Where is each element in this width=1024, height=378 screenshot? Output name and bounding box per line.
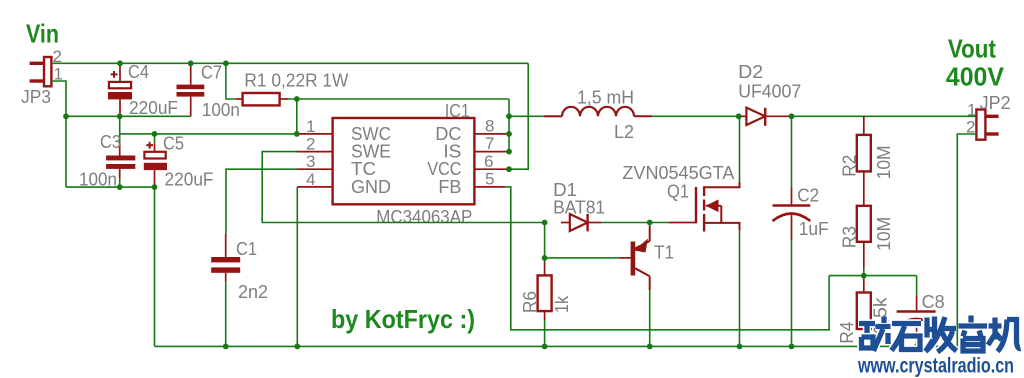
- svg-text:JP2: JP2: [980, 93, 1011, 113]
- resistor R4: [857, 276, 871, 347]
- junction dot top rail C4: [117, 60, 123, 66]
- diode D2: [739, 108, 792, 126]
- value 100n of C7: [202, 100, 240, 120]
- junction dot pin7: [506, 149, 512, 155]
- junction dot divider node: [861, 273, 867, 279]
- wire T1 collector to ground rail: [649, 290, 651, 346]
- svg-text:R6: R6: [520, 291, 540, 313]
- pin name VCC: [427, 159, 461, 179]
- svg-text:IC1: IC1: [445, 101, 470, 121]
- watermark chinese characters: [859, 316, 1021, 353]
- junction dot R1 to pin1: [294, 96, 300, 102]
- pin number 2 of JP3: [53, 47, 62, 66]
- connector JP3: [30, 57, 52, 86]
- pin number 2 of JP2: [966, 118, 975, 137]
- pin name FB: [438, 177, 461, 197]
- junction dot ground C8: [914, 344, 920, 350]
- pin number 1: [306, 117, 315, 136]
- junction dot pin6: [506, 166, 512, 172]
- pin name SWC: [351, 124, 391, 144]
- junction dot ground T1: [647, 344, 653, 350]
- svg-text:C8: C8: [922, 292, 945, 312]
- junction dot pin8: [506, 131, 512, 137]
- svg-text:Vout: Vout: [948, 34, 996, 64]
- label C1: [236, 239, 257, 259]
- svg-text:BAT81: BAT81: [553, 198, 605, 218]
- capacitor C8: [897, 296, 936, 346]
- pin 8 lead DC: [474, 133, 509, 135]
- label C4: [128, 62, 149, 82]
- junction dot C3 bottom rail: [117, 184, 123, 190]
- resistor R6: [538, 262, 552, 320]
- label L2: [614, 122, 634, 142]
- svg-text:1uF: 1uF: [799, 219, 829, 239]
- svg-text:www.crystalradio.cn: www.crystalradio.cn: [857, 354, 1014, 378]
- label T1: [654, 243, 674, 263]
- svg-text:Q1: Q1: [667, 182, 689, 202]
- junction dot base node: [542, 255, 548, 261]
- junction dot D2 anode node: [736, 113, 742, 119]
- wire R6 bottom to ground: [544, 320, 546, 346]
- svg-text:10M: 10M: [874, 217, 894, 251]
- junction dot ground Q1: [737, 344, 743, 350]
- wire SWC rail to pin 1: [120, 133, 297, 135]
- capacitor C7: [177, 63, 205, 116]
- wire D2 to JP2 pin 1 (Vout rail): [792, 115, 977, 117]
- resistor R2: [857, 116, 871, 206]
- red gate lead of Q1: [669, 222, 696, 224]
- value 220uF of C4: [129, 98, 178, 118]
- junction dot ground R4: [861, 344, 867, 350]
- wire C1 bottom to ground rail: [225, 281, 227, 346]
- connector JP2: [976, 110, 998, 140]
- svg-text:100n: 100n: [202, 100, 240, 120]
- value 10M rotated: [874, 145, 894, 179]
- wire pin3 TC routing down to C1: [226, 169, 297, 234]
- pin number 2: [306, 135, 315, 154]
- svg-text:220uF: 220uF: [165, 170, 214, 190]
- wire R6 branch vertical: [544, 223, 546, 263]
- wire C2 bottom to ground rail: [791, 240, 793, 346]
- resistor R3: [857, 206, 871, 268]
- label C7: [201, 63, 222, 83]
- net label 400V: [946, 62, 1005, 92]
- label 1,5 mH: [577, 88, 634, 108]
- pin number 1 of JP2: [967, 101, 976, 120]
- pin 2 lead SWE: [297, 151, 333, 153]
- transistor T1: [620, 226, 650, 290]
- svg-text:2: 2: [306, 135, 315, 154]
- wire VCC drop from top rail: [509, 63, 528, 169]
- svg-text:1,5 mH: 1,5 mH: [577, 88, 634, 108]
- wire T1 emitter to gate line: [649, 223, 651, 227]
- label R6 rotated: [520, 291, 540, 313]
- svg-text:R1 0,22R 1W: R1 0,22R 1W: [244, 71, 348, 91]
- value 10M rotated for R3: [874, 217, 894, 251]
- inductor L2: [509, 107, 652, 117]
- wire divider node rail: [829, 275, 917, 277]
- capacitor C3: [106, 144, 135, 178]
- wire Q1 drain up to L2/D2 node: [739, 116, 741, 182]
- label JP2: [980, 93, 1011, 113]
- svg-text:C1: C1: [236, 239, 257, 259]
- wire top rail to R1: [226, 63, 236, 99]
- wire C3 C5 bottom rail: [66, 186, 155, 188]
- svg-text:4: 4: [306, 170, 315, 189]
- svg-text:R3: R3: [840, 226, 860, 248]
- svg-text:C3: C3: [100, 132, 121, 152]
- pin name GND: [351, 177, 391, 197]
- label R2 rotated: [840, 155, 860, 177]
- wire R1 output to x509: [288, 98, 509, 100]
- label C5: [163, 134, 184, 154]
- wire JP2 pin2 down to ground rail: [957, 134, 976, 346]
- pin number 1 of JP3: [54, 65, 63, 84]
- svg-text:GND: GND: [351, 177, 391, 197]
- junction dot ground pin4: [294, 344, 300, 350]
- wire top Vin rail: [51, 62, 528, 64]
- watermark url www.crystalradio.cn: [857, 354, 1014, 378]
- op-amp box IC1 MC34063AP: [333, 118, 475, 204]
- svg-text:FB: FB: [438, 177, 461, 197]
- wire C3 bottom: [119, 178, 121, 187]
- svg-text:C5: C5: [163, 134, 184, 154]
- junction dot D2 cathode node: [789, 113, 795, 119]
- capacitor C4: [108, 63, 132, 116]
- junction dot ground C1: [223, 344, 229, 350]
- svg-text:C4: C4: [128, 62, 149, 82]
- svg-text:by KotFryc :): by KotFryc :): [331, 304, 475, 334]
- junction dot rail A left: [63, 113, 69, 119]
- pin 7 lead IS: [474, 151, 509, 153]
- wire gate line from D1 cathode to Q1 gate: [602, 222, 669, 224]
- plus sign of C5: [146, 142, 153, 149]
- pin number 3: [306, 152, 315, 171]
- junction dot top rail R1 branch: [223, 60, 229, 66]
- net label Vout: [948, 34, 996, 64]
- wire L2 to D2 node: [652, 115, 739, 117]
- capacitor C1: [211, 234, 240, 281]
- wire C3 top branch: [119, 116, 121, 144]
- pin name IS: [443, 141, 461, 161]
- diode D1 BAT81: [561, 214, 602, 231]
- label MC34063AP: [376, 207, 472, 227]
- pin number 8: [485, 117, 494, 136]
- wire rail A: [66, 115, 191, 117]
- label D2: [738, 62, 763, 82]
- label ZVN0545GTA: [622, 163, 734, 183]
- svg-text:MC34063AP: MC34063AP: [376, 207, 472, 227]
- label C2: [797, 186, 819, 206]
- svg-text:R2: R2: [840, 155, 860, 177]
- wire T1 base line: [545, 257, 620, 259]
- svg-text:R4: R4: [837, 322, 857, 344]
- junction dot gate line T1 emitter: [647, 220, 653, 226]
- svg-text:400V: 400V: [946, 62, 1005, 92]
- svg-text:JP3: JP3: [21, 87, 51, 107]
- value 1uF: [799, 219, 829, 239]
- wire pin5 FB routing to divider: [505, 187, 829, 330]
- capacitor C5: [144, 144, 167, 187]
- pin number 4: [306, 170, 315, 189]
- svg-text:UF4007: UF4007: [738, 82, 801, 102]
- value 100n of C3: [79, 170, 117, 190]
- svg-text:220uF: 220uF: [129, 98, 178, 118]
- svg-text:1: 1: [306, 117, 315, 136]
- svg-text:C7: C7: [201, 63, 222, 83]
- value 1k rotated: [552, 295, 572, 313]
- svg-text:7: 7: [485, 134, 494, 153]
- junction dot C5 bottom rail: [152, 184, 158, 190]
- pin number 6: [484, 152, 493, 171]
- junction dot ground C2: [789, 344, 795, 350]
- wire C8 branch: [916, 276, 918, 296]
- svg-text:Vin: Vin: [26, 19, 59, 49]
- pin name TC: [351, 159, 376, 179]
- label C8: [922, 292, 945, 312]
- wire R3 bottom to divider node: [863, 268, 865, 276]
- text by KotFryc: [331, 304, 475, 334]
- junction dot top rail C7: [188, 60, 194, 66]
- svg-text:1k: 1k: [552, 295, 572, 313]
- pin name DC: [435, 124, 461, 144]
- wire bottom ground rail: [155, 345, 958, 347]
- transistor Q1 ZVN0545GTA mosfet: [696, 182, 740, 232]
- junction dot ground R6: [542, 344, 548, 350]
- wire C5 junction down to ground rail: [154, 187, 156, 346]
- svg-text:L2: L2: [614, 122, 634, 142]
- svg-text:D2: D2: [738, 62, 763, 82]
- junction dot L2 line x509: [506, 113, 512, 119]
- wire pin2 SWE routing to gate line: [262, 152, 544, 223]
- resistor R1: [236, 93, 288, 105]
- value 220uF of C5: [165, 170, 214, 190]
- wire R1 node down to pin 1: [296, 99, 298, 134]
- wire JP3 pin1 to rail A: [51, 81, 66, 116]
- pin number 7: [485, 134, 494, 153]
- wire pin4 GND down to ground rail: [296, 187, 298, 347]
- value UF4007: [738, 82, 801, 102]
- junction dot rail A C4: [117, 113, 123, 119]
- pin 6 lead VCC: [474, 168, 509, 170]
- label R4 rotated: [837, 322, 857, 344]
- capacitor C2: [773, 187, 811, 240]
- wire C2 branch vertical top: [791, 116, 793, 187]
- svg-text:3: 3: [306, 152, 315, 171]
- svg-text:8: 8: [485, 117, 494, 136]
- label IC1: [445, 101, 470, 121]
- value 2n2 of C1: [238, 282, 268, 302]
- wire x509 vertical to pins 8 7: [508, 99, 510, 152]
- label R1 0,22R 1W: [244, 71, 348, 91]
- label JP3: [21, 87, 51, 107]
- pin 1 lead SWC: [297, 133, 333, 135]
- label Q1: [667, 182, 689, 202]
- svg-text:2n2: 2n2: [238, 282, 268, 302]
- net label Vin: [26, 19, 59, 49]
- pin 5 lead FB: [474, 186, 505, 188]
- svg-text:5: 5: [485, 170, 494, 189]
- plus sign of C4: [111, 71, 118, 78]
- junction dot gate line left: [542, 220, 548, 226]
- svg-text:10M: 10M: [874, 145, 894, 179]
- value 0,5k rotated: [871, 296, 891, 334]
- label R3 rotated: [840, 226, 860, 248]
- label C3: [100, 132, 121, 152]
- svg-text:100n: 100n: [79, 170, 117, 190]
- svg-text:C2: C2: [797, 186, 819, 206]
- svg-text:ZVN0545GTA: ZVN0545GTA: [622, 163, 734, 183]
- pin number 5: [485, 170, 494, 189]
- wire C5 top lead from SWC rail: [154, 134, 156, 144]
- label D1: [553, 180, 577, 200]
- svg-text:T1: T1: [654, 243, 674, 263]
- svg-text:6: 6: [484, 152, 493, 171]
- junction dot pin1: [294, 131, 300, 137]
- wire left vertical to lower rail: [65, 116, 67, 187]
- pin name SWE: [351, 141, 391, 161]
- pin 3 lead TC: [297, 168, 333, 170]
- wire Q1 source down to ground rail: [739, 230, 741, 346]
- junction dot C5 top on SWC rail: [152, 131, 158, 137]
- pin 4 lead GND: [297, 186, 332, 188]
- value BAT81: [553, 198, 605, 218]
